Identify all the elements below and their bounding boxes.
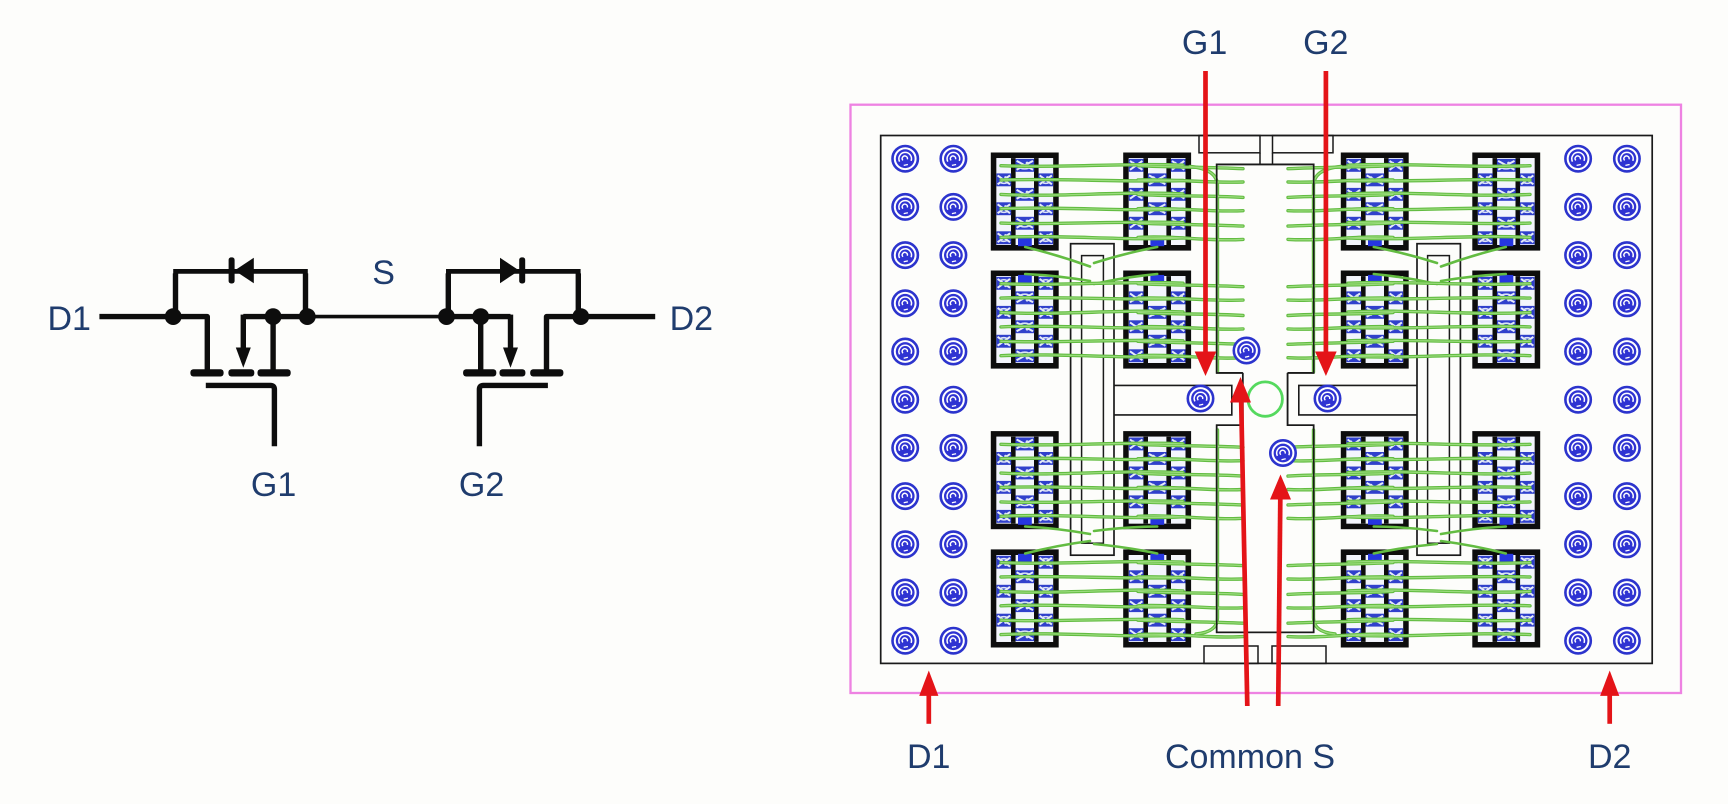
svg-text:G1: G1	[251, 466, 296, 504]
svg-text:Common S: Common S	[1165, 738, 1335, 776]
svg-text:D1: D1	[907, 738, 950, 776]
svg-text:G1: G1	[1182, 24, 1227, 62]
svg-text:G2: G2	[1303, 24, 1348, 62]
svg-text:S: S	[372, 254, 395, 292]
svg-text:D2: D2	[670, 300, 713, 338]
svg-text:G2: G2	[459, 466, 504, 504]
svg-text:D2: D2	[1588, 738, 1631, 776]
svg-text:D1: D1	[47, 300, 90, 338]
